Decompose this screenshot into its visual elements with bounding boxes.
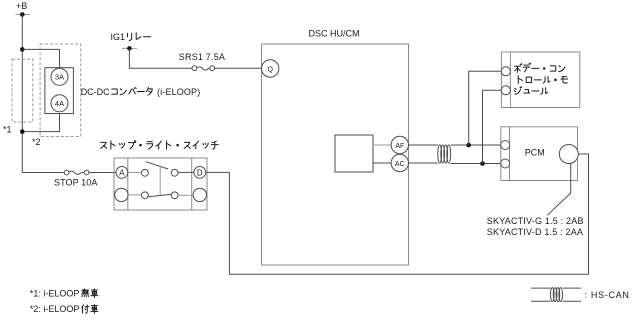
svg-text:: HS-CAN: : HS-CAN (585, 290, 630, 300)
body control module box (501, 52, 579, 108)
link contact 4 to lower-right pin (178, 194, 193, 196)
svg-text:*1: i-ELOOP: *1: i-ELOOP (30, 289, 80, 299)
PCM box (501, 127, 578, 181)
DSC internal CAN block (335, 135, 373, 172)
svg-text:STOP 10A: STOP 10A (54, 178, 98, 188)
pin lower-left (115, 188, 128, 201)
BCM pin 2 (501, 86, 510, 95)
wire CAN-H from AF (409, 144, 438, 146)
switch contact 1 (142, 169, 149, 176)
switch blade lower (closed) (147, 194, 171, 197)
junction CAN-L (480, 161, 485, 166)
PCM pin 1 (501, 141, 510, 150)
dashed box *1 (i-ELOOP none) (12, 59, 33, 122)
stop light switch box (114, 158, 207, 210)
wire IG1 to SRS1 fuse (129, 48, 192, 68)
svg-text:SKYACTIV-G 1.5 : 2AB: SKYACTIV-G 1.5 : 2AB (487, 216, 584, 226)
link block to AC (373, 162, 391, 164)
wire stop lamp signal to PCM (206, 154, 589, 274)
svg-text:+B: +B (16, 1, 27, 11)
svg-text:SRS1 7.5A: SRS1 7.5A (179, 52, 225, 62)
wire SRS1 to DSC pin Q (215, 67, 262, 69)
svg-text:*1: *1 (3, 124, 12, 134)
footnote *1 (30, 289, 98, 299)
terminal IG1 (122, 46, 137, 51)
leader line to connector note (547, 163, 570, 215)
switch blade upper (open) (146, 162, 168, 169)
svg-text:AF: AF (395, 143, 404, 150)
svg-text:AC: AC (395, 161, 405, 168)
fuse SRS1 7.5A (192, 66, 215, 71)
wire +B vertical feed (21, 15, 23, 173)
svg-text:(i-ELOOP): (i-ELOOP) (157, 87, 200, 97)
switch actuator link (159, 166, 161, 195)
label body control module (514, 63, 567, 94)
svg-text:D: D (197, 169, 203, 178)
svg-text:IG1: IG1 (111, 32, 126, 42)
svg-text:3A: 3A (55, 73, 64, 82)
fuse holder box (45, 68, 74, 114)
switch contact 4 (171, 192, 178, 199)
switch contact 2 (171, 169, 178, 176)
BCM connector column (509, 52, 511, 108)
power terminal +B (16, 12, 31, 17)
link lower-left pin to contact 3 (128, 194, 141, 196)
junction CAN-H (466, 143, 471, 148)
wire CAN-H to PCM (451, 144, 501, 146)
pin AF (391, 136, 408, 153)
svg-text:DC-DC: DC-DC (81, 87, 110, 97)
junction node bottom (20, 129, 25, 134)
pin lower-right (193, 188, 206, 201)
label stop light switch (101, 142, 107, 148)
PCM connector column (509, 127, 511, 181)
DSC HU/CM box (262, 44, 409, 265)
pin A (116, 167, 128, 179)
PCM stop lamp input circle (559, 145, 578, 164)
junction node top (20, 47, 25, 52)
wire CAN-L branch to BCM (483, 90, 502, 163)
HS-CAN legend symbol (531, 288, 581, 302)
wire CAN-L to PCM (451, 163, 501, 165)
fuse STOP 10A (64, 170, 89, 175)
svg-text:Q: Q (267, 66, 273, 73)
label DC-DC converter (i-ELOOP) (81, 87, 201, 97)
svg-text:DSC HU/CM: DSC HU/CM (309, 28, 360, 38)
switch connector column right (191, 158, 193, 210)
wire to DC-DC fuse box top (22, 49, 59, 67)
link A to contact (128, 171, 142, 173)
svg-text:PCM: PCM (525, 148, 545, 158)
link block to AF (373, 144, 391, 146)
twisted pair symbol (438, 145, 451, 163)
label IG1 relay (111, 32, 151, 42)
link contact 2 to D (178, 171, 194, 173)
svg-text:SKYACTIV-D 1.5 : 2AA: SKYACTIV-D 1.5 : 2AA (487, 227, 583, 237)
switch connector column left (127, 158, 129, 210)
wire fuse to stop light switch (89, 172, 116, 174)
dashed box *2 (i-ELOOP fitted) DC-DC converter (40, 44, 81, 137)
fuse 3A (51, 68, 68, 85)
switch contact 3 (142, 192, 149, 199)
wire CAN-L from AC (409, 162, 438, 164)
wire CAN-H branch to BCM (469, 71, 502, 145)
pin D (194, 167, 206, 179)
svg-text:*2: *2 (32, 137, 41, 147)
footnote *2 (30, 304, 98, 314)
svg-text:*2: i-ELOOP: *2: i-ELOOP (30, 304, 80, 314)
BCM pin 1 (501, 67, 510, 76)
pin Q (262, 60, 279, 77)
PCM pin 2 (501, 159, 510, 168)
pin AC (391, 154, 408, 171)
fuse 4A (51, 95, 68, 112)
svg-text:A: A (119, 169, 125, 178)
wire DC-DC fuse box bottom return (22, 114, 59, 132)
wire to STOP fuse (22, 172, 64, 174)
svg-text:4A: 4A (55, 99, 64, 108)
